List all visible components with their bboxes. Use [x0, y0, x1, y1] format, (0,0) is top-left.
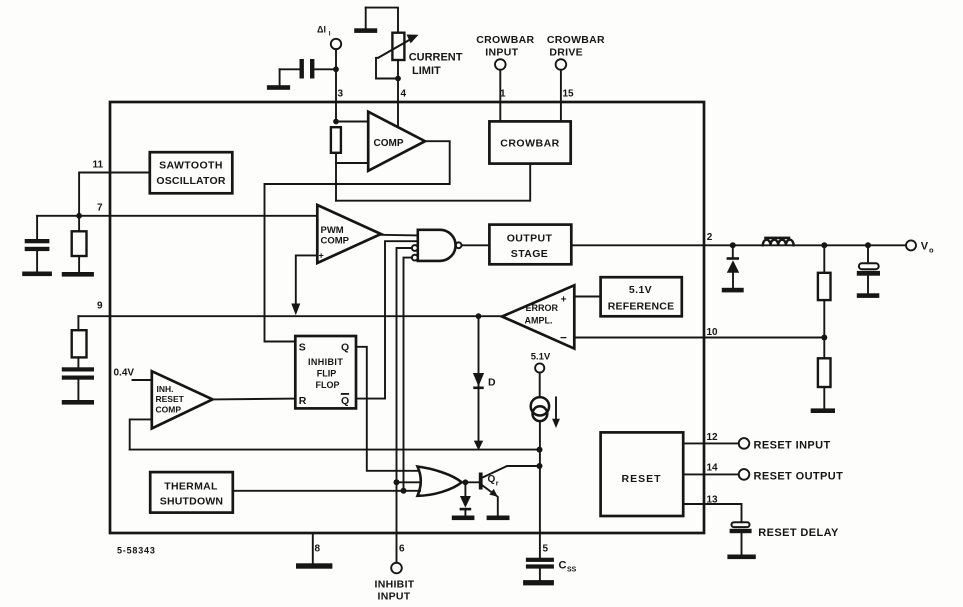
- terminal Vo: [906, 240, 934, 254]
- block CROWBAR: [489, 121, 570, 163]
- wire thermal shutdown to OR input 3: [233, 490, 420, 492]
- junction pin3/capacitor: [333, 66, 339, 72]
- flip-flop INHIBIT FLIP FLOP: [295, 336, 356, 408]
- ground (reset delay): [727, 555, 755, 560]
- svg-text:INPUT: INPUT: [378, 591, 411, 603]
- block RESET: [601, 432, 684, 516]
- junction feedback divider node: [821, 242, 827, 248]
- wire soft-start sense line: [130, 449, 540, 451]
- junction output capacitor node: [865, 242, 871, 248]
- svg-text:RESET DELAY: RESET DELAY: [758, 527, 839, 539]
- wire NAND output to output stage: [462, 244, 490, 246]
- svg-text:REFERENCE: REFERENCE: [608, 301, 675, 313]
- op-amp COMP (current limit comparator): [368, 112, 425, 171]
- svg-text:RESET INPUT: RESET INPUT: [754, 440, 831, 452]
- wire OR input 2 stub: [397, 481, 421, 483]
- svg-text:10: 10: [707, 327, 719, 338]
- ground (zener): [452, 516, 475, 521]
- svg-text:SHUTDOWN: SHUTDOWN: [160, 496, 223, 508]
- svg-text:RESET: RESET: [156, 394, 185, 404]
- svg-text:5: 5: [543, 544, 549, 555]
- svg-text:OUTPUT: OUTPUT: [507, 233, 553, 245]
- svg-text:ERROR: ERROR: [526, 303, 559, 313]
- svg-text:THERMAL: THERMAL: [164, 481, 218, 493]
- wire crowbar to current-limit sense node: [336, 164, 530, 201]
- svg-text:5-58343: 5-58343: [117, 546, 156, 556]
- ground (output capacitor): [857, 293, 880, 298]
- resistor (feedback lower): [818, 338, 831, 409]
- svg-text:INH.: INH.: [157, 384, 174, 394]
- junction catch diode node: [730, 242, 736, 248]
- svg-text:0.4V: 0.4V: [114, 368, 135, 379]
- svg-text:+: +: [561, 295, 567, 306]
- svg-text:7: 7: [97, 203, 103, 214]
- IC boundary box: [110, 102, 704, 533]
- svg-text:V: V: [921, 241, 929, 253]
- wire pin4 internal to COMP: [397, 102, 399, 127]
- terminal RESET OUTPUT: [739, 469, 844, 482]
- gate NAND (output control): [412, 230, 462, 261]
- svg-text:INHIBIT: INHIBIT: [374, 579, 414, 591]
- svg-text:6: 6: [399, 544, 405, 555]
- ground (Css): [523, 580, 554, 585]
- junction pin11/pin7: [76, 213, 82, 219]
- svg-text:SS: SS: [567, 567, 577, 574]
- svg-text:RESET OUTPUT: RESET OUTPUT: [754, 471, 844, 483]
- svg-text:9: 9: [97, 301, 103, 312]
- svg-text:r: r: [496, 481, 499, 488]
- svg-text:D: D: [488, 377, 496, 389]
- svg-text:CROWBAR: CROWBAR: [476, 34, 534, 46]
- svg-text:OSCILLATOR: OSCILLATOR: [156, 175, 225, 187]
- potentiometer CURRENT LIMIT: [376, 33, 419, 102]
- capacitor (output): [857, 245, 880, 293]
- svg-text:STAGE: STAGE: [511, 248, 548, 260]
- wire top ground to potentiometer: [366, 8, 398, 33]
- wire 0.4V to INH comp: [133, 379, 152, 381]
- wire flip-flop Q to OR gate input 1: [356, 347, 419, 471]
- svg-text:o: o: [929, 246, 934, 255]
- svg-text:RESET: RESET: [621, 473, 661, 485]
- svg-text:COMP: COMP: [374, 138, 404, 149]
- svg-text:1: 1: [500, 89, 506, 100]
- junction thermal/NAND input 4: [401, 488, 407, 494]
- wire pin 9 compensation line to error amp output: [78, 315, 502, 317]
- wire INH comp output to flip-flop R: [213, 398, 296, 401]
- svg-text:8: 8: [315, 544, 321, 555]
- svg-text:INPUT: INPUT: [485, 47, 518, 59]
- ground (pin 7 resistor): [62, 272, 94, 277]
- terminal CROWBAR INPUT (pin 1): [476, 34, 534, 70]
- svg-text:FLOP: FLOP: [316, 380, 340, 390]
- svg-text:ΔI: ΔI: [317, 25, 326, 35]
- junction pot wiper/pin4: [395, 76, 401, 82]
- wire PWM + input to pin 9 line: [296, 255, 318, 304]
- ground (feedback divider): [811, 408, 835, 413]
- svg-text:C: C: [559, 560, 567, 572]
- svg-text:2: 2: [707, 232, 713, 243]
- resistor (pin 9 external): [72, 316, 87, 367]
- terminal CROWBAR DRIVE (pin 15): [547, 34, 605, 70]
- svg-text:15: 15: [563, 89, 575, 100]
- svg-text:COMP: COMP: [156, 405, 182, 415]
- pin 8 ground wire: [312, 533, 314, 563]
- svg-text:FLIP: FLIP: [317, 369, 337, 379]
- capacitor Css (pin 5 soft start): [526, 558, 577, 580]
- svg-text:+: +: [319, 251, 324, 261]
- svg-text:Q: Q: [341, 342, 349, 354]
- resistor (pin 3 internal divider): [331, 119, 368, 201]
- wire pin 13 reset delay: [683, 504, 741, 522]
- block THERMAL SHUTDOWN: [150, 472, 233, 512]
- zener diode (base clamp): [460, 479, 472, 515]
- wire reference to error amp +: [574, 296, 600, 298]
- junction Qr collector / pin 5: [537, 463, 543, 469]
- junction OR input 2 on pin 6 line: [394, 479, 400, 485]
- wire pin 2 output line to Vo: [571, 244, 906, 246]
- wire pin 12 reset input: [683, 442, 739, 444]
- ground (Qr emitter): [487, 516, 510, 521]
- capacitor (reset delay): [730, 522, 752, 554]
- wire flip-flop Qbar output: [356, 398, 385, 400]
- svg-text:SAWTOOTH: SAWTOOTH: [159, 160, 223, 172]
- capacitor (pin 9 external): [62, 367, 94, 400]
- wire pin3 terminal to border: [335, 49, 337, 121]
- wire COMP output loop to flip flop S: [265, 141, 450, 341]
- svg-text:−: −: [560, 331, 567, 345]
- svg-text:AMPL.: AMPL.: [525, 316, 553, 326]
- inductor L (output filter): [763, 237, 794, 246]
- wire NAND input 3 from inhibit pin 6: [397, 248, 412, 563]
- svg-text:4: 4: [401, 89, 407, 100]
- op-amp ERROR AMPL: [502, 285, 574, 348]
- svg-text:Q: Q: [341, 395, 349, 407]
- ground (current limit top): [354, 8, 377, 33]
- wire pin 11 sawtooth to external node: [79, 173, 150, 216]
- gate OR (reset of soft start): [418, 467, 462, 496]
- current source (soft start): [531, 373, 560, 558]
- svg-text:CROWBAR: CROWBAR: [547, 34, 605, 46]
- svg-text:12: 12: [707, 432, 719, 443]
- wire NAND input 2 from flip-flop Q-bar: [385, 241, 418, 398]
- svg-text:COMP: COMP: [321, 236, 350, 247]
- ground (pin 8): [296, 563, 332, 568]
- wire OR output to Qr base: [462, 481, 479, 483]
- svg-text:S: S: [299, 342, 306, 354]
- svg-text:Q: Q: [488, 474, 496, 485]
- junction arrow diode D on soft-start line: [474, 441, 483, 451]
- svg-text:CROWBAR: CROWBAR: [500, 138, 560, 150]
- svg-text:5.1V: 5.1V: [531, 352, 551, 363]
- wire NAND input 4 from thermal shutdown: [404, 258, 412, 491]
- svg-text:CURRENT: CURRENT: [409, 52, 463, 64]
- svg-text:11: 11: [93, 160, 104, 171]
- ground (pin 7 capacitor): [22, 272, 52, 277]
- svg-text:LIMIT: LIMIT: [412, 65, 441, 77]
- svg-text:R: R: [299, 395, 307, 407]
- ground (pin 9 network): [62, 400, 94, 405]
- resistor (feedback upper): [818, 245, 831, 337]
- terminal INHIBIT INPUT (pin 6): [374, 563, 414, 603]
- wire pin 7 line to PWM comp: [37, 215, 317, 217]
- wire INH comp input from soft-start line: [130, 419, 152, 449]
- svg-text:14: 14: [707, 463, 719, 474]
- wire PWM output to NAND input 1: [381, 234, 418, 237]
- svg-text:DRIVE: DRIVE: [549, 47, 583, 59]
- ground (catch diode): [722, 288, 744, 293]
- comparator PWM COMP: [317, 205, 381, 263]
- transistor Qr (soft start discharge): [479, 466, 540, 516]
- block SAWTOOTH OSCILLATOR: [150, 152, 233, 193]
- svg-text:l: l: [329, 31, 331, 38]
- junction arrow PWM input on pin 9 line: [291, 304, 300, 316]
- wire pin15 to crowbar box: [560, 70, 562, 122]
- resistor (pin 7 external): [72, 216, 87, 272]
- junction pin 10 feedback: [821, 335, 827, 341]
- wire pin1 to crowbar box: [499, 70, 501, 122]
- svg-text:INHIBIT: INHIBIT: [308, 357, 343, 367]
- label CURRENT LIMIT: [409, 52, 463, 78]
- capacitor C (pin 3 filter): [280, 59, 336, 85]
- block OUTPUT STAGE: [489, 225, 571, 265]
- terminal RESET INPUT: [739, 438, 831, 451]
- terminal ΔIl (pin 3 external): [317, 25, 341, 50]
- diode (catch, pin 2 node): [727, 245, 740, 287]
- svg-text:13: 13: [707, 495, 719, 506]
- capacitor (pin 7 external): [25, 216, 50, 272]
- block 5.1V REFERENCE: [601, 277, 682, 316]
- wire error amp - input to pin 10: [574, 337, 824, 339]
- diode D (soft start clamp): [473, 313, 496, 442]
- ground (pin 3 capacitor): [267, 85, 290, 90]
- comparator INH RESET COMP: [152, 371, 213, 428]
- junction soft-start line / pin 5: [537, 447, 543, 453]
- svg-text:PWM: PWM: [321, 225, 344, 236]
- svg-text:3: 3: [338, 89, 344, 100]
- wire pin 14 reset output: [683, 473, 739, 475]
- terminal 5.1V (soft start source): [531, 352, 551, 373]
- svg-text:5.1V: 5.1V: [629, 284, 652, 296]
